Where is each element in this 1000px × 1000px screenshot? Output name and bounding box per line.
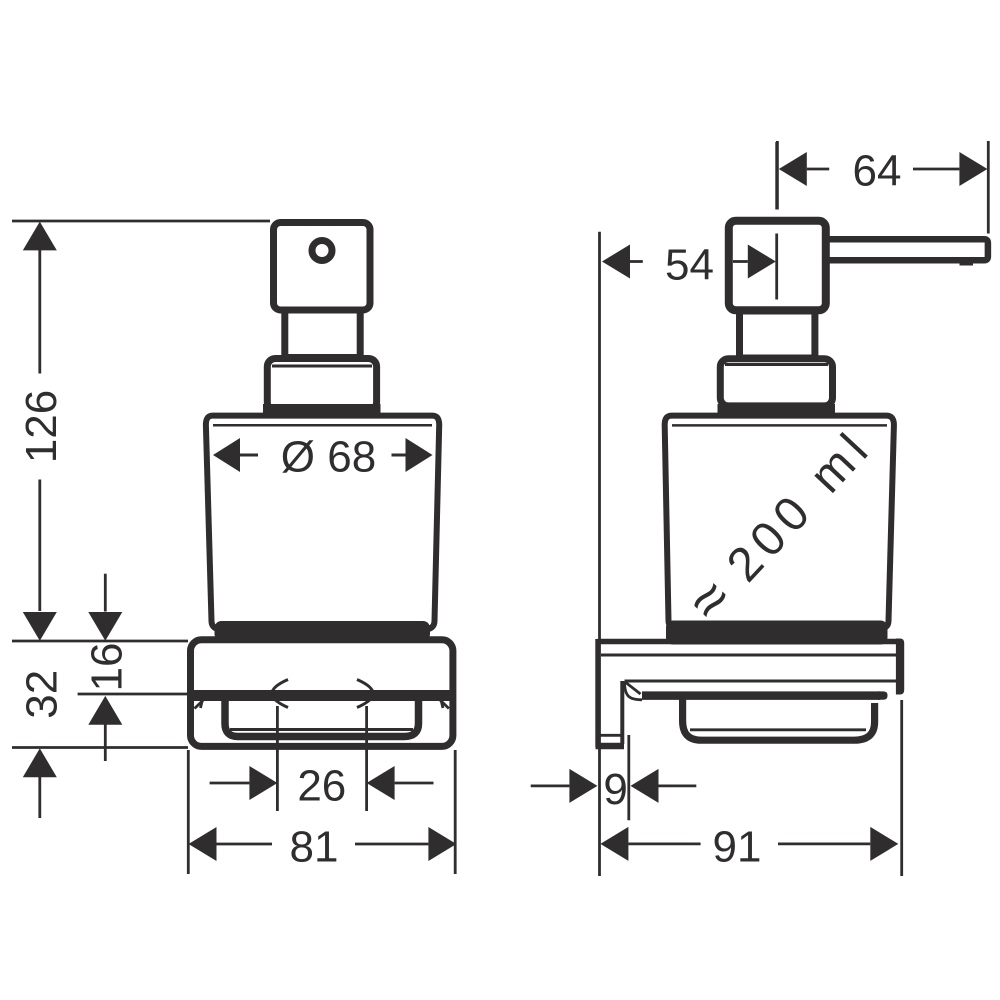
- dimension 54 right arrow: [748, 245, 776, 279]
- dimension 81 left line: [217, 843, 273, 846]
- bottle outline (front): [206, 416, 439, 630]
- dimension 81 left arrow: [189, 827, 217, 861]
- bottle mouth band (side): [718, 404, 836, 417]
- holder ring band (side): [642, 691, 880, 700]
- pump center line upper: [775, 142, 778, 210]
- wall bottom edge (side): [596, 743, 625, 750]
- spout outlet nub: [960, 257, 974, 266]
- dimension Ø 68 right tick line: [392, 454, 406, 457]
- svg-text:Ø 68: Ø 68: [281, 433, 376, 482]
- bottle outline (side): [665, 416, 894, 629]
- bottle bottom thick edge (front): [215, 621, 431, 641]
- hidden ring arc left: [272, 680, 288, 708]
- holder ledge band (front): [190, 690, 453, 701]
- dimension 91 left line: [628, 843, 700, 846]
- holder cup opening (side): [683, 699, 875, 740]
- dimension 91 right line: [778, 843, 870, 846]
- dimension 16 top arrow: [88, 612, 122, 641]
- holder cup inner line (side): [690, 728, 866, 731]
- holder top extension line: [12, 640, 188, 643]
- dimension 91 right arrow: [870, 827, 898, 861]
- dimension 81 left extension line: [187, 750, 190, 874]
- holder plate right end cap: [896, 639, 904, 695]
- dimension 26 left tail line: [210, 782, 250, 785]
- dimension 126 line upper: [38, 250, 41, 374]
- dimension 54 left arrow: [602, 245, 630, 279]
- dimension 81 right arrow: [428, 827, 456, 861]
- dimension 16 line upper: [104, 574, 107, 612]
- holder bottom extension line: [12, 746, 188, 749]
- holder right chamfer notch: [436, 696, 449, 709]
- svg-text:91: 91: [713, 823, 762, 872]
- holder right chamfer inner tick: [440, 697, 443, 708]
- holder plate second line (side): [601, 654, 897, 657]
- dimension 32 bottom arrow: [23, 748, 57, 777]
- collar inner line (side): [725, 363, 828, 366]
- pump collar (side): [720, 359, 832, 406]
- svg-text:64: 64: [853, 147, 902, 196]
- ledge extension line: [78, 693, 188, 696]
- svg-text:54: 54: [665, 241, 714, 290]
- dimension 64 right arrow: [959, 152, 987, 186]
- wall step line (side): [600, 734, 621, 737]
- holder ring chamfer diagonal: [625, 682, 641, 695]
- dimension 16 tail line: [104, 725, 107, 762]
- dimension 126 bottom arrow: [23, 612, 57, 641]
- dimension 26 left arrow: [249, 766, 277, 800]
- pump head square (side): [729, 221, 826, 310]
- dimension 26 left extension line: [276, 706, 279, 811]
- dimension 16 bottom arrow: [88, 696, 122, 725]
- dimension 81 right line: [355, 843, 428, 846]
- spout tube (side): [827, 239, 988, 260]
- dimension 54 inner line: [733, 260, 748, 263]
- svg-text:32: 32: [17, 670, 66, 719]
- dimension 26 right extension line: [365, 706, 368, 811]
- bottle top inner line (front): [213, 424, 432, 427]
- dimension Ø 68 left arrow: [213, 438, 240, 472]
- dimension 81 right extension line: [454, 750, 457, 874]
- svg-text:9: 9: [603, 765, 627, 814]
- dimension 32 tail line: [38, 777, 41, 818]
- dimension 126 line lower: [38, 480, 41, 612]
- holder ring chamfer curve: [625, 682, 643, 700]
- dimension 64 left arrow: [779, 152, 807, 186]
- svg-text:126: 126: [17, 390, 66, 463]
- dimension 64 left extension line: [776, 141, 779, 210]
- dimension 26 right arrow: [367, 766, 395, 800]
- dimension Ø 68 left tick line: [240, 454, 258, 457]
- holder left chamfer inner tick: [201, 697, 204, 708]
- bottle mouth band (front): [263, 404, 381, 417]
- dimension 54 left line: [630, 260, 643, 263]
- dimension 9 right line: [659, 785, 697, 788]
- dimension 126 top arrow: [23, 222, 57, 251]
- dimension 9 right extension line: [627, 735, 630, 820]
- bottle top inner line (side): [672, 424, 887, 427]
- pump neck (side): [740, 311, 815, 358]
- wall inner edge (side): [620, 681, 624, 744]
- dimension 54 extension line: [598, 232, 601, 876]
- holder cup opening (front): [225, 699, 419, 737]
- pump collar (front): [267, 359, 376, 411]
- top reference line (126): [12, 220, 270, 223]
- holder plate top line (side): [598, 639, 899, 645]
- svg-text:81: 81: [290, 823, 339, 872]
- pump head square (front): [274, 223, 371, 311]
- holder outer body (front): [191, 640, 453, 747]
- dimension 64 left line: [807, 168, 829, 171]
- svg-text:16: 16: [82, 643, 131, 692]
- nozzle hole circle: [312, 241, 332, 261]
- pump neck (front): [285, 310, 360, 358]
- dimension 9 right arrow: [631, 769, 659, 803]
- holder ring band right shoulder: [878, 691, 888, 699]
- dimension 64 right extension line: [987, 141, 990, 234]
- dimension 91 right extension line: [900, 700, 903, 876]
- bottle bottom thick edge (side): [666, 621, 888, 645]
- wall outer edge (side): [595, 639, 600, 747]
- dimension 9 left line: [531, 785, 570, 788]
- dimension 9 left arrow: [569, 769, 597, 803]
- holder plate bottom line (side): [625, 680, 898, 683]
- pump center line inside head: [775, 234, 778, 300]
- dimension 64 right line: [913, 168, 959, 171]
- collar inner line (front): [272, 365, 372, 368]
- dimension 91 left arrow: [600, 827, 628, 861]
- dimension 26 right tail line: [395, 782, 434, 785]
- holder cup inner line (front): [230, 728, 413, 731]
- hidden ring arc right: [357, 680, 373, 708]
- holder left chamfer notch: [195, 696, 208, 709]
- dimension Ø 68 right arrow: [406, 438, 433, 472]
- svg-text:26: 26: [297, 762, 346, 811]
